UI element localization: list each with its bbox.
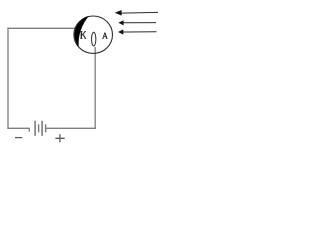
- battery BT1 plate 3 (long): [41, 121, 43, 136]
- wire: bottom-left horizontal to battery negative: [7, 128, 29, 131]
- light ray arrow 2: [118, 20, 156, 25]
- light ray arrow 3: [118, 29, 157, 34]
- battery plus label: [55, 134, 64, 142]
- battery minus label: [15, 137, 22, 139]
- light ray arrow 1: [115, 10, 158, 16]
- battery BT1 plate 2 (short): [38, 124, 40, 132]
- battery BT1 plate 1 (long): [34, 121, 36, 136]
- wire: left vertical: [7, 28, 9, 129]
- wire: top horizontal from left loop to cathode: [7, 27, 76, 29]
- cathode K plate (crescent): [74, 16, 89, 47]
- battery BT1 plate 4 (short): [45, 124, 47, 132]
- phototube envelope: [74, 16, 113, 53]
- wire: right vertical anode lead: [94, 47, 96, 129]
- label A: [102, 33, 107, 39]
- wire: bottom-right horizontal from battery positive: [46, 127, 96, 129]
- anode A electrode: [92, 32, 96, 46]
- label K: [80, 32, 86, 39]
